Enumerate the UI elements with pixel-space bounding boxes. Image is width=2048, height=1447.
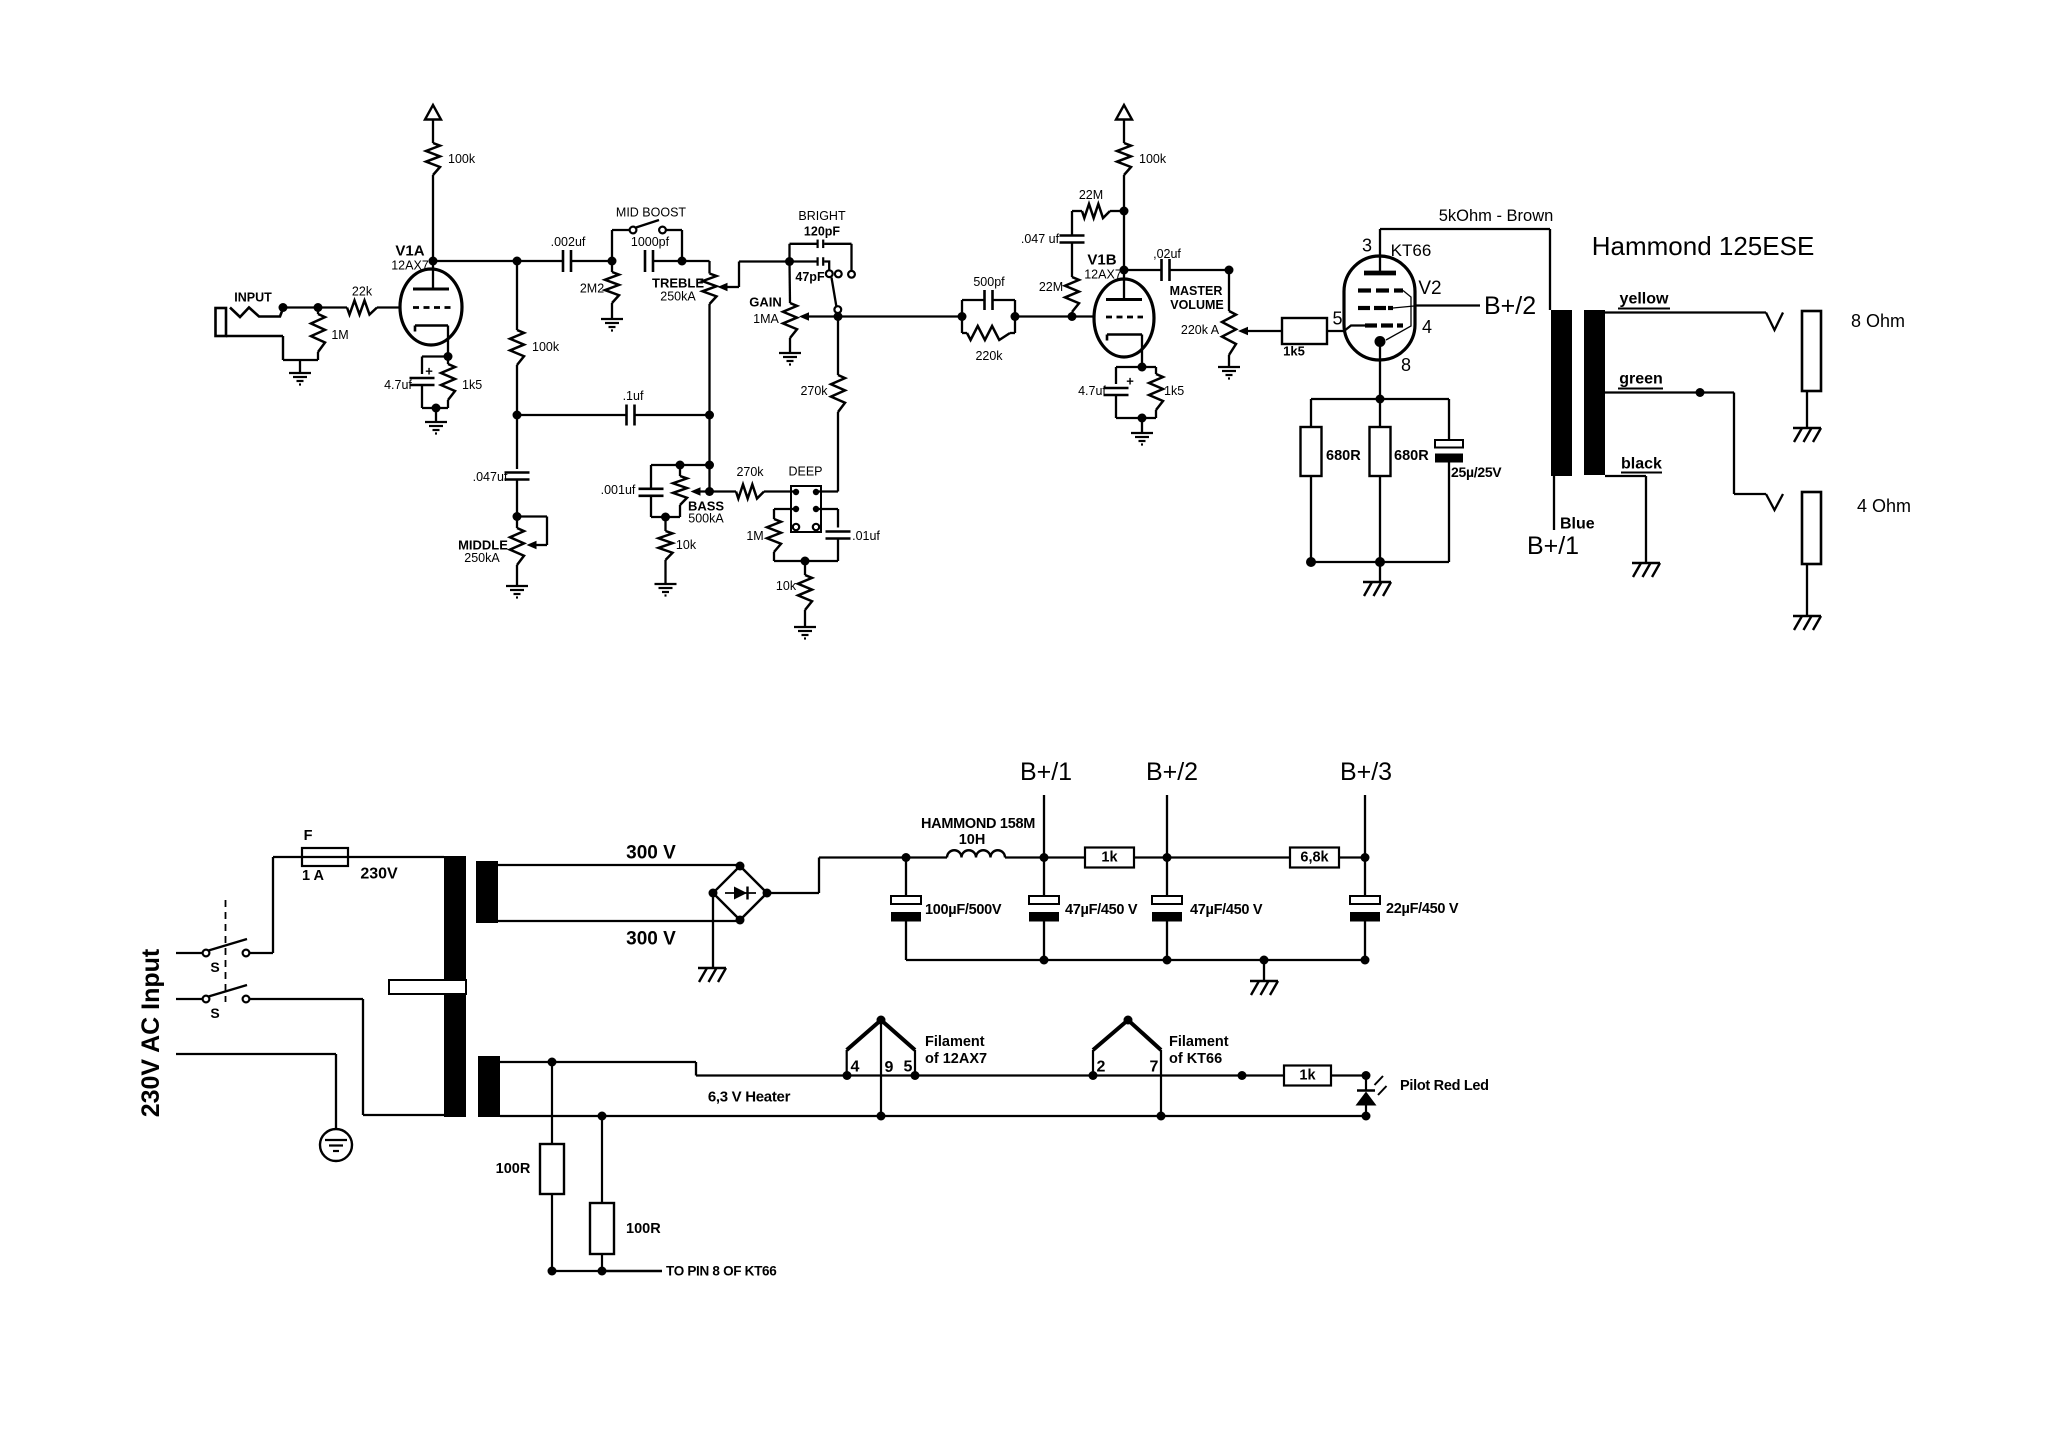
ground chassis filter <box>1250 981 1278 995</box>
resistor 1M deep <box>767 519 805 561</box>
node V1A plate <box>429 257 564 266</box>
svg-text:8: 8 <box>1401 355 1411 375</box>
label 100R no1 <box>496 1161 531 1177</box>
svg-text:25µ/25V: 25µ/25V <box>1451 464 1502 480</box>
resistor 1M <box>311 308 325 361</box>
label 22k <box>352 285 373 299</box>
svg-text:4: 4 <box>851 1059 860 1076</box>
label 47uF/450V no1 <box>1065 902 1138 918</box>
label 1000pf <box>631 235 670 249</box>
label 1M deep <box>746 529 763 543</box>
svg-text:270k: 270k <box>736 465 764 479</box>
label TO PIN 8 OF KT66 <box>666 1264 777 1279</box>
resistor 270k deep-feed <box>816 317 845 492</box>
label MID BOOST <box>616 206 687 220</box>
svg-text:of 12AX7: of 12AX7 <box>925 1051 987 1067</box>
label 1k B+ <box>1101 850 1118 866</box>
potentiometer BASS <box>651 465 736 517</box>
label pin 8 <box>1401 355 1411 375</box>
label Filament of KT66 <box>1169 1034 1229 1067</box>
label + V1B cathode <box>1126 374 1134 389</box>
node V1B plate <box>1120 266 1129 275</box>
wire bridge plus <box>767 853 911 893</box>
filament of 12AX7 <box>847 1016 915 1117</box>
label 2M2 <box>580 282 604 296</box>
label .047uf <box>473 470 508 484</box>
choke HAMMOND 158M 10H <box>906 850 1044 857</box>
label black <box>1621 456 1662 473</box>
transformer PT HV secondary <box>476 861 498 923</box>
svg-text:500kA: 500kA <box>688 512 724 526</box>
label B+/1 blue <box>1527 532 1579 560</box>
svg-text:7: 7 <box>1150 1059 1159 1076</box>
label 4 Ohm <box>1857 496 1911 516</box>
potentiometer GAIN <box>783 262 838 353</box>
capacitor .02uf <box>1124 259 1234 281</box>
label Filament of 12AX7 <box>925 1034 987 1067</box>
label .047uf V1B <box>1021 232 1060 246</box>
triode V1B <box>1094 270 1154 367</box>
label 230V AC Input <box>137 948 165 1117</box>
svg-text:1000pf: 1000pf <box>631 235 670 249</box>
svg-text:12AX7: 12AX7 <box>1084 268 1122 282</box>
svg-text:100R: 100R <box>626 1221 661 1237</box>
capacitor 120pF <box>790 240 852 271</box>
label 500kA <box>688 512 724 526</box>
svg-text:MASTER: MASTER <box>1170 284 1223 298</box>
node 2M2 top <box>608 257 617 266</box>
label 100R no2 <box>626 1221 661 1237</box>
label B+/3 <box>1340 758 1392 786</box>
resistor 6,8k B+ <box>1167 848 1365 868</box>
label B+/1 <box>1020 758 1072 786</box>
svg-text:120pF: 120pF <box>804 225 840 239</box>
svg-text:.01uf: .01uf <box>852 529 880 543</box>
label Hammond 125ESE <box>1592 231 1815 261</box>
resistor 10k deep <box>798 557 812 627</box>
power arrow B+ V1B <box>1116 105 1132 143</box>
svg-text:B+/2: B+/2 <box>1484 292 1536 320</box>
switch S upper <box>176 857 273 956</box>
label 12AX7 V1B <box>1084 268 1122 282</box>
svg-text:100µF/500V: 100µF/500V <box>925 902 1002 918</box>
ground chassis 8 Ohm <box>1793 428 1821 442</box>
label 300 V lower <box>626 929 676 950</box>
svg-text:10k: 10k <box>676 538 697 552</box>
svg-text:B+/1: B+/1 <box>1527 532 1579 560</box>
ground earth V1A cathode <box>425 422 447 434</box>
svg-text:4.7uf: 4.7uf <box>1078 384 1106 398</box>
label KT66 <box>1391 241 1432 260</box>
input jack J1 <box>216 308 284 361</box>
svg-text:.002uf: .002uf <box>551 235 586 249</box>
svg-text:12AX7: 12AX7 <box>391 259 429 273</box>
wire input node <box>279 303 348 312</box>
label DEEP <box>788 465 822 479</box>
svg-text:22µF/450 V: 22µF/450 V <box>1386 901 1459 917</box>
svg-text:4: 4 <box>1422 317 1432 337</box>
capacitor 500pf <box>958 290 1020 321</box>
speaker jack 4 Ohm <box>1802 492 1821 615</box>
label 220k <box>975 349 1003 363</box>
label 1M <box>331 328 348 342</box>
svg-text:,02uf: ,02uf <box>1153 247 1181 261</box>
resistor 10k bass <box>659 513 673 584</box>
fuse F 1A <box>273 848 444 866</box>
potentiometer MIDDLE <box>510 512 547 585</box>
svg-text:220k: 220k <box>975 349 1003 363</box>
wire 300V upper <box>498 864 740 866</box>
label 6,8k <box>1300 850 1329 866</box>
resistor 1k5 KT66 grid <box>1282 318 1365 344</box>
label 5kOhm Brown <box>1439 207 1554 225</box>
label 250kA middle <box>464 551 500 565</box>
capacitor 100uF/500V <box>891 858 921 961</box>
label 1 A <box>302 868 325 884</box>
label MASTER <box>1170 284 1223 298</box>
resistor 100k V1B plate <box>1117 143 1131 270</box>
label HAMMOND 158M <box>921 816 1035 832</box>
node B+/1 <box>1040 795 1049 862</box>
ground earth bass <box>655 584 677 596</box>
label 4.7uf V1A <box>384 378 412 392</box>
switch link dashed <box>225 900 227 1002</box>
label pin 5 fil <box>904 1059 913 1076</box>
svg-text:1MA: 1MA <box>753 312 779 326</box>
svg-text:100k: 100k <box>1139 152 1167 166</box>
label S lower <box>210 1005 219 1021</box>
svg-text:Blue: Blue <box>1560 516 1595 533</box>
label 1k5 box <box>1283 344 1305 359</box>
potentiometer TREBLE <box>703 261 790 496</box>
label 680R right <box>1394 448 1429 464</box>
svg-text:47µF/450 V: 47µF/450 V <box>1065 902 1138 918</box>
label pin 4 <box>851 1059 860 1076</box>
svg-text:6,3 V Heater: 6,3 V Heater <box>708 1089 791 1106</box>
wire bass top <box>651 461 710 470</box>
svg-text:1k: 1k <box>1101 850 1118 866</box>
capacitor 4.7uf / resistor 1k5 V1A cathode <box>410 352 456 421</box>
svg-text:Hammond 125ESE: Hammond 125ESE <box>1592 231 1815 261</box>
speaker jack 8 Ohm <box>1802 311 1821 427</box>
svg-text:green: green <box>1619 371 1663 388</box>
label 47pF <box>795 270 825 284</box>
svg-text:230V AC Input: 230V AC Input <box>137 948 165 1117</box>
svg-text:9: 9 <box>885 1059 894 1076</box>
label 250kA treble <box>660 290 696 304</box>
label 100k V1B <box>1139 152 1167 166</box>
label .001uf <box>601 483 636 497</box>
resistor 220k <box>962 317 1015 341</box>
label 1k LED <box>1299 1068 1316 1084</box>
svg-text:300 V: 300 V <box>626 843 676 864</box>
ground earth input <box>289 373 311 385</box>
ground earth GAIN <box>779 353 801 365</box>
capacitor .1uf <box>513 405 710 426</box>
label .01uf <box>852 529 880 543</box>
ground earth middle <box>506 586 528 598</box>
svg-text:680R: 680R <box>1394 448 1429 464</box>
label V2 <box>1418 278 1441 299</box>
label pin 5 <box>1332 309 1342 329</box>
svg-text:B+/1: B+/1 <box>1020 758 1072 786</box>
resistor 22M top <box>1072 204 1129 218</box>
wire sleeve-ground <box>283 360 318 372</box>
label 4.7uf V1B <box>1078 384 1106 398</box>
label + V1A cathode <box>425 364 433 379</box>
svg-text:680R: 680R <box>1326 448 1361 464</box>
svg-text:1k: 1k <box>1299 1068 1316 1084</box>
label VOLUME <box>1170 298 1223 312</box>
svg-text:.047uf: .047uf <box>473 470 508 484</box>
label 6,3 V Heater <box>708 1089 791 1106</box>
label 230V <box>360 866 398 883</box>
label 8 Ohm <box>1851 311 1905 331</box>
wire filter ground rail <box>906 956 1365 981</box>
svg-text:F: F <box>304 828 313 844</box>
wire V1B grid <box>1015 312 1094 321</box>
svg-text:GAIN: GAIN <box>749 295 782 310</box>
capacitor .047uf <box>505 415 530 517</box>
ground earth 2M2 <box>601 319 623 331</box>
svg-text:2M2: 2M2 <box>580 282 604 296</box>
label TREBLE <box>652 276 704 291</box>
svg-text:10H: 10H <box>959 832 986 848</box>
switch BRIGHT <box>826 270 855 316</box>
svg-text:250kA: 250kA <box>660 290 696 304</box>
svg-text:47µF/450 V: 47µF/450 V <box>1190 902 1263 918</box>
svg-text:.1uf: .1uf <box>623 389 644 403</box>
label 100uF/500V <box>925 902 1002 918</box>
wire green tap <box>1605 388 1783 510</box>
svg-text:250kA: 250kA <box>464 551 500 565</box>
resistor 100R no1 <box>540 1062 564 1271</box>
svg-text:10k: 10k <box>776 579 797 593</box>
label 300 V upper <box>626 843 676 864</box>
resistor 22k <box>347 301 400 315</box>
label 22uF/450V <box>1386 901 1459 917</box>
resistor 100k V1A plate <box>426 143 440 261</box>
potentiometer MASTER VOLUME <box>1222 270 1282 366</box>
node signal bright <box>834 312 963 321</box>
label .1uf <box>623 389 644 403</box>
label 680R left <box>1326 448 1361 464</box>
wire 300V lower <box>498 920 740 922</box>
svg-text:B+/2: B+/2 <box>1146 758 1198 786</box>
transformer PT primary <box>389 856 466 1117</box>
svg-text:6,8k: 6,8k <box>1300 850 1329 866</box>
capacitor 22uF/450V <box>1350 858 1380 965</box>
svg-text:300 V: 300 V <box>626 929 676 950</box>
pentode KT66 V2 <box>1344 229 1415 399</box>
capacitor 4.7uf / resistor 1k5 V1B cathode <box>1104 363 1164 433</box>
label 12AX7 V1A <box>391 259 429 273</box>
svg-text:5: 5 <box>904 1059 913 1076</box>
svg-text:100k: 100k <box>448 152 476 166</box>
svg-text:+: + <box>425 364 433 379</box>
capacitor 1000pf <box>645 250 710 272</box>
label 10H <box>959 832 986 848</box>
svg-text:1M: 1M <box>331 328 348 342</box>
label B+/2 top <box>1484 292 1536 320</box>
svg-text:HAMMOND 158M: HAMMOND 158M <box>921 816 1035 832</box>
svg-text:2: 2 <box>1097 1059 1106 1076</box>
label 1k5 V1A <box>462 378 482 392</box>
label B+/2 <box>1146 758 1198 786</box>
svg-text:47pF: 47pF <box>795 270 825 284</box>
label 10k bass <box>676 538 697 552</box>
capacitor 47pF <box>790 257 830 270</box>
label pin 7 <box>1150 1059 1159 1076</box>
label 220k A <box>1181 323 1220 337</box>
svg-text:black: black <box>1621 456 1662 473</box>
svg-text:8 Ohm: 8 Ohm <box>1851 311 1905 331</box>
wire screen B+2 <box>1415 304 1480 306</box>
capacitor .01uf <box>805 532 851 562</box>
svg-text:V2: V2 <box>1418 278 1441 299</box>
label 100k V1A <box>448 152 476 166</box>
svg-text:22k: 22k <box>352 285 373 299</box>
svg-text:1k5: 1k5 <box>1164 384 1184 398</box>
ground chassis bridge <box>698 968 726 982</box>
svg-text:500pf: 500pf <box>973 275 1005 289</box>
svg-text:TO PIN 8 OF KT66: TO PIN 8 OF KT66 <box>666 1264 777 1279</box>
label pin 9 <box>885 1059 894 1076</box>
ground earth V1B cathode <box>1131 433 1153 445</box>
label 10k deep <box>776 579 797 593</box>
capacitor .001uf <box>639 465 664 517</box>
label 22M shunt <box>1039 280 1063 294</box>
svg-text:+: + <box>1126 374 1134 389</box>
label V1B <box>1087 252 1116 269</box>
svg-text:5kOhm - Brown: 5kOhm - Brown <box>1439 207 1554 225</box>
filament of KT66 <box>1089 1016 1162 1117</box>
node B+/3 <box>1361 795 1370 862</box>
svg-text:.047 uf: .047 uf <box>1021 232 1060 246</box>
transformer PT heater secondary <box>478 1056 500 1117</box>
resistor 270k bass <box>736 485 796 499</box>
svg-text:TREBLE: TREBLE <box>652 276 704 291</box>
label pin 3 <box>1362 236 1372 256</box>
capacitor .047uf V1B <box>1060 211 1085 243</box>
svg-text:270k: 270k <box>800 384 828 398</box>
svg-text:B+/3: B+/3 <box>1340 758 1392 786</box>
wire black tap <box>1605 476 1646 562</box>
node B+/2 <box>1163 795 1172 862</box>
label 500pf <box>973 275 1005 289</box>
switch S lower <box>176 985 444 1115</box>
label 47uF/450V no2 <box>1190 902 1263 918</box>
ground chassis black <box>1632 563 1660 577</box>
resistor 100k divider <box>510 261 524 415</box>
capacitor 47uF/450V no1 <box>1029 858 1059 965</box>
resistor 680R x2 / capacitor 25u KT66 cathode <box>1301 395 1464 582</box>
wire yellow tap <box>1605 313 1783 331</box>
label Pilot Red Led <box>1400 1078 1489 1094</box>
svg-text:4 Ohm: 4 Ohm <box>1857 496 1911 516</box>
triode V1A <box>400 261 462 357</box>
svg-text:1k5: 1k5 <box>1283 344 1305 359</box>
resistor 1k LED <box>1284 1066 1331 1086</box>
svg-text:VOLUME: VOLUME <box>1170 298 1223 312</box>
label yellow <box>1618 291 1670 309</box>
label 1k5 V1B <box>1164 384 1184 398</box>
node bright <box>785 257 794 266</box>
transformer OT Hammond 125ESE <box>1551 310 1605 476</box>
svg-text:BRIGHT: BRIGHT <box>798 209 846 223</box>
label S upper <box>210 959 219 975</box>
wire PE earth <box>176 1054 336 1129</box>
label GAIN <box>749 295 782 310</box>
wire heater top bus <box>500 1058 1371 1081</box>
label 100k divider <box>532 340 560 354</box>
capacitor .002uf <box>563 250 612 272</box>
svg-text:S: S <box>210 1005 219 1021</box>
svg-text:V1A: V1A <box>395 243 424 260</box>
label F <box>304 828 313 844</box>
label 270k deep-feed <box>800 384 828 398</box>
capacitor 47uF/450V no2 <box>1152 858 1182 965</box>
svg-text:V1B: V1B <box>1087 252 1116 269</box>
resistor 22M shunt <box>1065 243 1079 317</box>
bridge rectifier <box>709 862 772 925</box>
wire heater bottom rail <box>500 1112 1371 1121</box>
label pin 4 <box>1422 317 1432 337</box>
resistor 2M2 <box>605 261 619 318</box>
wire plate to OT <box>1380 229 1550 310</box>
label V1A <box>395 243 424 260</box>
ground chassis KT66 cathode <box>1363 582 1391 596</box>
label .02uf <box>1153 247 1181 261</box>
switch DEEP <box>791 486 821 532</box>
ground earth deep <box>794 627 816 639</box>
wire blue lead <box>1553 476 1555 530</box>
resistor 1k B+ <box>1044 848 1167 868</box>
ground earth mains <box>320 1129 352 1161</box>
label Blue <box>1560 516 1595 533</box>
switch MID BOOST <box>612 220 682 261</box>
ground earth master volume <box>1218 367 1240 379</box>
label .002uf <box>551 235 586 249</box>
svg-text:4.7uf: 4.7uf <box>384 378 412 392</box>
svg-text:Filament: Filament <box>925 1034 985 1050</box>
wire to pin8 <box>548 1267 663 1276</box>
svg-text:3: 3 <box>1362 236 1372 256</box>
power arrow B+ V1A <box>425 105 441 143</box>
svg-text:KT66: KT66 <box>1391 241 1432 260</box>
label pin 2 <box>1097 1059 1106 1076</box>
svg-text:22M: 22M <box>1039 280 1063 294</box>
label 22M top <box>1079 188 1103 202</box>
svg-text:22M: 22M <box>1079 188 1103 202</box>
ground chassis 4 Ohm <box>1793 616 1821 630</box>
svg-text:yellow: yellow <box>1620 291 1669 308</box>
label green <box>1618 371 1663 389</box>
svg-text:MID BOOST: MID BOOST <box>616 206 687 220</box>
svg-text:5: 5 <box>1332 309 1342 329</box>
resistor 100R no2 <box>590 1116 614 1271</box>
label BASS <box>688 499 724 514</box>
label 120pF <box>804 225 840 239</box>
label 25u/25V <box>1451 464 1502 480</box>
label 270k bass <box>736 465 764 479</box>
svg-text:1k5: 1k5 <box>462 378 482 392</box>
LED pilot red <box>1356 1076 1387 1117</box>
svg-text:230V: 230V <box>360 866 398 883</box>
svg-text:100k: 100k <box>532 340 560 354</box>
svg-text:.001uf: .001uf <box>601 483 636 497</box>
wire DEEP contacts <box>774 509 838 528</box>
